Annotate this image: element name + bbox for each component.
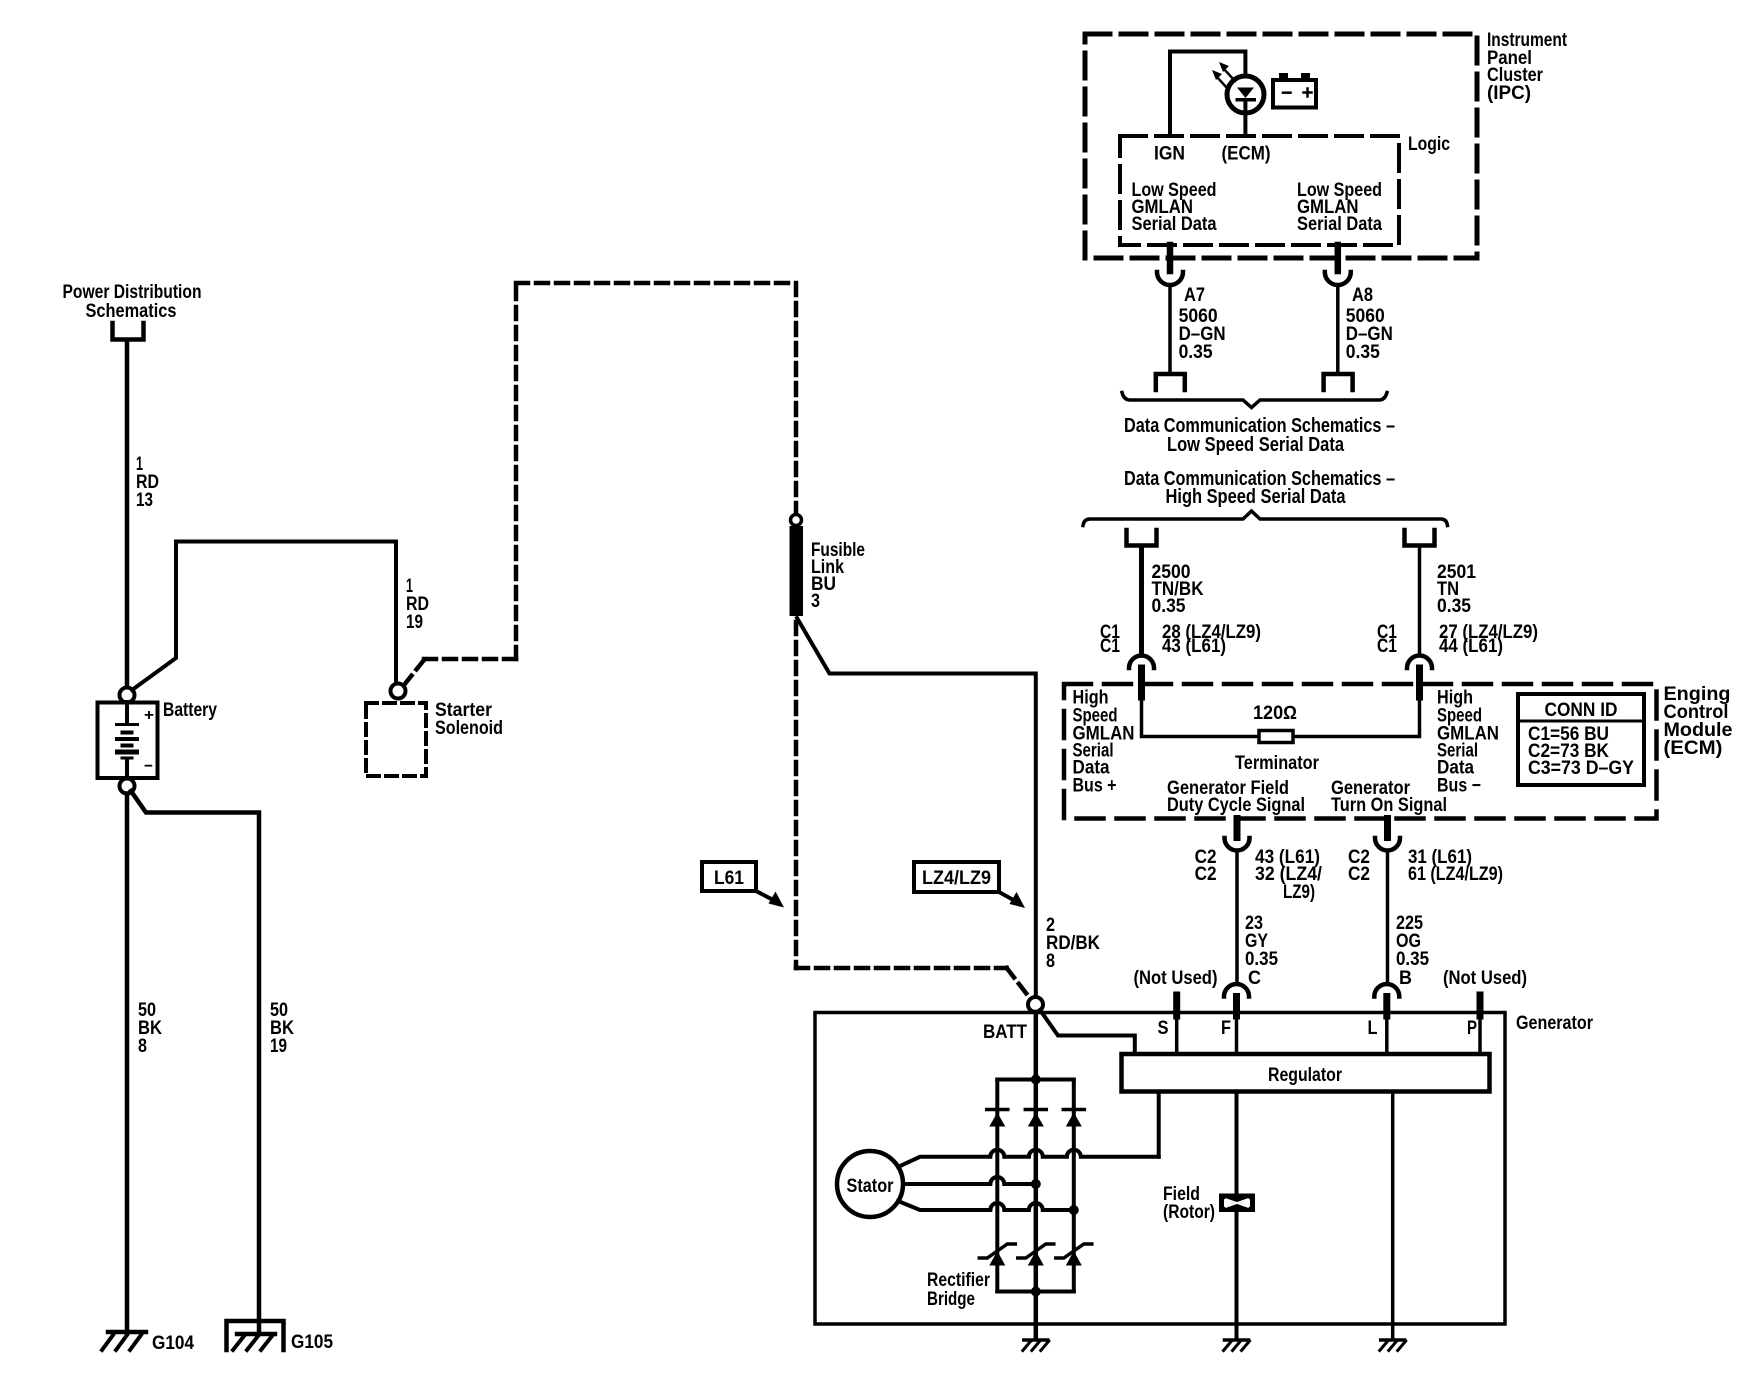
svg-text:A8: A8 xyxy=(1352,285,1373,306)
CONN ID table xyxy=(1518,694,1644,785)
label: 23 GY 0.35 xyxy=(1245,913,1278,970)
label: 1 RD 19 xyxy=(406,576,429,633)
wire 50 BK 8 xyxy=(125,794,130,1333)
wire: stator phase 2 with hop xyxy=(903,1177,1036,1184)
avalanche diode (lower left) xyxy=(979,1244,1015,1266)
svg-text:Generator: Generator xyxy=(1516,1013,1594,1034)
svg-text:Terminator: Terminator xyxy=(1235,753,1320,774)
connector pin A8 stub xyxy=(1335,245,1342,271)
ground: generator main xyxy=(1023,1340,1049,1351)
wire: BATT main feed through generator xyxy=(1034,1012,1039,1339)
svg-text:44 (L61): 44 (L61) xyxy=(1439,636,1503,657)
svg-text:(ECM): (ECM) xyxy=(1664,738,1723,759)
svg-text:G105: G105 xyxy=(291,1332,333,1353)
generator box xyxy=(815,1013,1505,1325)
regulator box xyxy=(1122,1054,1490,1092)
label: 50 BK 8 xyxy=(138,1000,162,1057)
label: Data Communication Schematics - High Speed Serial Data xyxy=(1124,468,1395,508)
label: C1=56 BU / C2=73 BK / C3=73 D-GY xyxy=(1528,724,1634,779)
label: Instrument Panel Cluster (IPC) xyxy=(1487,30,1568,104)
brace: high speed serial data xyxy=(1083,511,1448,526)
label: Field (Rotor) xyxy=(1163,1184,1215,1223)
svg-text:Stator: Stator xyxy=(847,1176,895,1197)
label: 2501 TN 0.35 xyxy=(1437,562,1476,617)
rectifier bridge top rail xyxy=(997,1078,1074,1082)
svg-text:Rectifier: Rectifier xyxy=(927,1270,990,1291)
connector A8 socket arc xyxy=(1325,272,1351,285)
svg-text:(ECM): (ECM) xyxy=(1222,144,1271,165)
diode (upper right) xyxy=(1063,1110,1084,1127)
svg-text:0.35: 0.35 xyxy=(1346,342,1380,363)
rectifier right leg xyxy=(1072,1080,1076,1292)
svg-text:Battery: Battery xyxy=(163,700,217,721)
connector C1 arc (left) xyxy=(1129,656,1154,669)
pin stub into generator L xyxy=(1383,997,1390,1017)
battery symbol in IPC xyxy=(1273,73,1316,108)
ground: L path xyxy=(1380,1340,1406,1351)
svg-text:LZ9): LZ9) xyxy=(1283,882,1315,903)
svg-text:8: 8 xyxy=(138,1036,147,1057)
label: Enging Control Module (ECM) xyxy=(1664,684,1733,759)
label: Generator Turn On Signal xyxy=(1331,778,1447,816)
svg-text:C1: C1 xyxy=(1377,636,1397,657)
svg-text:0.35: 0.35 xyxy=(1179,342,1213,363)
off-page ref below A7 xyxy=(1156,374,1185,390)
pin stub into generator F xyxy=(1233,997,1240,1017)
svg-text:Regulator: Regulator xyxy=(1268,1065,1342,1086)
label: 28 (LZ4/LZ9) / 43 (L61) xyxy=(1162,622,1261,657)
label: Starter Solenoid xyxy=(435,700,503,739)
rectifier left leg xyxy=(995,1080,999,1292)
label: 1 RD 13 xyxy=(136,454,159,511)
svg-text:P: P xyxy=(1467,1018,1477,1039)
label: Generator Field Duty Cycle Signal xyxy=(1167,778,1305,816)
arrow: L61 to dashed wire xyxy=(756,891,784,908)
label: 5060 D-GN 0.35 (right) xyxy=(1346,306,1393,363)
svg-text:Solenoid: Solenoid xyxy=(435,718,503,739)
svg-text:Power Distribution: Power Distribution xyxy=(63,282,202,303)
svg-text:S: S xyxy=(1158,1018,1169,1039)
wire: BATT to regulator xyxy=(1040,1010,1135,1054)
svg-text:C: C xyxy=(1248,968,1261,989)
junction: phase 2 to middle leg xyxy=(1031,1179,1041,1189)
svg-text:120Ω: 120Ω xyxy=(1253,703,1297,724)
avalanche diode (lower middle) xyxy=(1018,1244,1054,1266)
label: Fusible Link BU 3 xyxy=(811,540,865,612)
wire 5060 D-GN 0.35 (right) xyxy=(1336,286,1340,373)
svg-text:G104: G104 xyxy=(152,1333,194,1354)
wire: P terminal to regulator xyxy=(1478,1014,1482,1054)
wire (dashed): solenoid feed to fusible link, LZ4/LZ9 routing xyxy=(404,283,796,685)
wire 225 OG 0.35 xyxy=(1386,851,1390,985)
svg-text:Low Speed Serial Data: Low Speed Serial Data xyxy=(1167,434,1345,456)
label: High Speed GMLAN Serial Data Bus - xyxy=(1437,688,1499,797)
svg-text:B: B xyxy=(1399,968,1412,989)
pin stub into ECM (left C1) xyxy=(1138,668,1145,697)
svg-text:0.35: 0.35 xyxy=(1396,949,1429,970)
diode (upper left) xyxy=(987,1110,1008,1127)
label: Data Communication Schematics - Low Speed Serial Data xyxy=(1124,415,1395,456)
label: 50 BK 19 xyxy=(270,1000,294,1057)
junction: top rail to BATT wire xyxy=(1031,1075,1041,1085)
svg-text:19: 19 xyxy=(406,612,423,633)
label: 27 (LZ4/LZ9) / 44 (L61) xyxy=(1439,622,1538,657)
logic module (dashed box) xyxy=(1120,136,1399,245)
svg-text:19: 19 xyxy=(270,1036,287,1057)
svg-text:(Not Used): (Not Used) xyxy=(1134,968,1218,989)
label: 225 OG 0.35 xyxy=(1396,913,1429,970)
svg-text:61 (LZ4/LZ9): 61 (LZ4/LZ9) xyxy=(1408,864,1503,885)
wire 23 GY 0.35 xyxy=(1235,851,1239,985)
brace: low speed serial data xyxy=(1122,393,1387,408)
pin stub into generator P xyxy=(1477,995,1484,1016)
starter solenoid (dashed box) xyxy=(366,703,426,776)
connector C2 arc (left) xyxy=(1225,838,1250,851)
svg-text:F: F xyxy=(1221,1018,1231,1039)
svg-text:Serial Data: Serial Data xyxy=(1297,214,1382,235)
svg-text:3: 3 xyxy=(811,591,820,612)
svg-text:Serial Data: Serial Data xyxy=(1132,214,1217,235)
diode (upper middle) xyxy=(1025,1110,1046,1127)
wire 2 RD/BK 8 (solid, L61) from fusible link to generator BATT xyxy=(797,618,1036,996)
label: Power Distribution Schematics xyxy=(63,282,202,322)
label: C1 C1 (left) xyxy=(1100,622,1120,657)
off-page connector: power distribution feed xyxy=(113,323,144,340)
wire 1 RD 13 xyxy=(125,342,130,689)
label: C2 C2 (left) xyxy=(1195,847,1217,885)
node: battery positive terminal xyxy=(120,688,135,703)
svg-text:CONN ID: CONN ID xyxy=(1545,700,1618,721)
svg-text:C2: C2 xyxy=(1348,864,1370,885)
ground: field xyxy=(1224,1340,1250,1351)
junction: phase 3 to right leg xyxy=(1069,1205,1079,1215)
svg-text:0.35: 0.35 xyxy=(1437,596,1471,617)
indicator LED lamp xyxy=(1227,76,1264,136)
svg-text:0.35: 0.35 xyxy=(1245,949,1278,970)
svg-text:Schematics: Schematics xyxy=(86,301,177,322)
wire: regulator L path to ground xyxy=(1391,1092,1395,1340)
wire: L terminal to regulator xyxy=(1385,1014,1389,1054)
label: Rectifier Bridge xyxy=(927,1270,990,1310)
svg-text:IGN: IGN xyxy=(1154,144,1185,165)
node: fusible link top terminal xyxy=(791,515,802,526)
resistor: 120 ohm terminator xyxy=(1259,731,1293,743)
pin stub into ECM (right C1) xyxy=(1416,668,1423,697)
svg-text:LZ4/LZ9: LZ4/LZ9 xyxy=(922,868,991,889)
pin stub below ECM (right C2) xyxy=(1384,819,1391,838)
wire: regulator to stator phase 1 sense xyxy=(1157,1092,1161,1157)
label: Low Speed GMLAN Serial Data (left) xyxy=(1132,180,1217,235)
avalanche diode (lower right) xyxy=(1056,1244,1092,1266)
engine control module ECM (dashed box) xyxy=(1064,684,1657,819)
ground G105 with retainer xyxy=(227,1321,284,1350)
field rotor winding xyxy=(1219,1194,1255,1213)
label: 31 (L61) / 61 (LZ4/LZ9) xyxy=(1408,847,1503,885)
wire: F terminal to regulator xyxy=(1235,1014,1239,1054)
svg-text:L: L xyxy=(1368,1018,1378,1039)
battery xyxy=(98,702,158,778)
svg-text:Turn On Signal: Turn On Signal xyxy=(1331,795,1447,816)
connector arc at generator terminal B xyxy=(1374,984,1399,997)
wire 2500 TN/BK 0.35 xyxy=(1139,548,1144,656)
label: 2500 TN/BK 0.35 xyxy=(1152,562,1204,617)
wire (dashed): fusible link to BATT, LZ4/LZ9 routing xyxy=(796,622,1029,997)
wire: stator phase 1 with hops xyxy=(898,1150,1159,1167)
svg-text:C3=73 D–GY: C3=73 D–GY xyxy=(1528,758,1634,779)
svg-text:−: − xyxy=(144,758,153,775)
svg-text:43 (L61): 43 (L61) xyxy=(1162,636,1226,657)
label: Low Speed GMLAN Serial Data (right) xyxy=(1297,180,1382,235)
instrument panel cluster IPC (dashed box) xyxy=(1085,34,1477,258)
svg-text:Logic: Logic xyxy=(1408,134,1450,155)
callout box LZ4/LZ9 xyxy=(914,862,999,892)
node: battery negative terminal xyxy=(120,779,135,794)
svg-text:C1: C1 xyxy=(1100,636,1120,657)
svg-text:Bus +: Bus + xyxy=(1073,776,1117,797)
svg-text:Duty Cycle Signal: Duty Cycle Signal xyxy=(1167,795,1305,816)
label: High Speed GMLAN Serial Data Bus + xyxy=(1073,688,1135,797)
label: 5060 D-GN 0.35 (left) xyxy=(1179,306,1226,363)
svg-text:0.35: 0.35 xyxy=(1152,596,1186,617)
fusible link BU 3 xyxy=(790,526,804,616)
svg-text:Bus −: Bus − xyxy=(1437,776,1481,797)
label: C1 C1 (right) xyxy=(1377,622,1397,657)
connector C1 arc (right) xyxy=(1407,656,1432,669)
svg-text:13: 13 xyxy=(136,490,153,511)
off-page ref above wire 2500 xyxy=(1127,530,1157,546)
wire 5060 D-GN 0.35 (left) xyxy=(1168,286,1172,373)
off-page ref above wire 2501 xyxy=(1405,530,1435,546)
junction: bottom rail to BATT wire xyxy=(1031,1287,1041,1297)
wire: serial data bus inside ECM xyxy=(1142,697,1420,737)
wire: S terminal to regulator xyxy=(1175,1014,1179,1054)
svg-text:High Speed Serial Data: High Speed Serial Data xyxy=(1166,486,1347,508)
label: 2 RD/BK 8 xyxy=(1046,915,1100,972)
stator xyxy=(837,1151,903,1217)
svg-text:8: 8 xyxy=(1046,951,1055,972)
label: C2 C2 (right) xyxy=(1348,847,1370,885)
svg-text:Bridge: Bridge xyxy=(927,1289,975,1310)
LED arrows xyxy=(1212,62,1235,89)
rectifier bridge bottom rail xyxy=(997,1290,1074,1294)
svg-text:L61: L61 xyxy=(714,868,744,889)
wire: IGN feed rail xyxy=(1170,52,1245,137)
label: 43 (L61) / 32 (LZ4/ LZ9) xyxy=(1255,847,1323,903)
ground G104 xyxy=(102,1332,146,1350)
svg-text:BATT: BATT xyxy=(983,1022,1027,1043)
svg-text:A7: A7 xyxy=(1184,285,1205,306)
svg-text:+: + xyxy=(144,707,154,724)
wire: stator phase 3 with hops xyxy=(898,1201,1074,1210)
svg-text:(IPC): (IPC) xyxy=(1487,83,1531,104)
arrow: LZ4/LZ9 to solid wire xyxy=(999,892,1025,908)
wire 2501 TN 0.35 xyxy=(1418,548,1422,656)
callout box L61 xyxy=(702,862,756,891)
node: starter solenoid battery terminal xyxy=(391,684,406,699)
connector pin A7 stub xyxy=(1167,245,1174,271)
connector C2 arc (right) xyxy=(1375,838,1400,851)
off-page ref below A8 xyxy=(1324,374,1353,390)
svg-text:C2: C2 xyxy=(1195,864,1217,885)
node: generator BATT terminal xyxy=(1028,997,1043,1012)
connector A7 socket arc xyxy=(1157,272,1183,285)
wire: battery positive jumper diagonal xyxy=(132,542,396,691)
wire: field to ground xyxy=(1235,1212,1239,1339)
pin stub into generator S xyxy=(1173,995,1180,1016)
pin stub below ECM (left C2) xyxy=(1234,819,1241,838)
wire 50 BK 19 xyxy=(131,791,259,1331)
svg-text:(Rotor): (Rotor) xyxy=(1163,1202,1215,1223)
svg-text:(Not Used): (Not Used) xyxy=(1443,968,1527,989)
wire: regulator to field xyxy=(1235,1092,1239,1194)
connector arc at generator terminal C xyxy=(1224,984,1249,997)
